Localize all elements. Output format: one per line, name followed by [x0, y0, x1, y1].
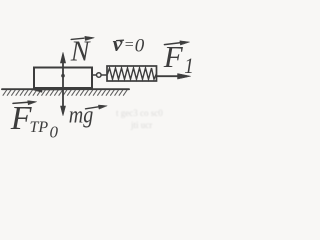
svg-text:=: =: [125, 37, 134, 54]
svg-text:0: 0: [135, 35, 145, 56]
svg-text:t gec3 co sc0: t gec3 co sc0: [116, 108, 163, 118]
svg-text:1: 1: [184, 53, 194, 78]
svg-text:jti ucr: jti ucr: [130, 120, 152, 130]
svg-text:TP: TP: [30, 119, 49, 136]
svg-text:mg: mg: [69, 102, 94, 128]
svg-text:0: 0: [50, 123, 59, 142]
svg-text:v: v: [113, 31, 123, 56]
svg-text:F: F: [163, 39, 184, 74]
svg-text:N: N: [70, 37, 91, 68]
